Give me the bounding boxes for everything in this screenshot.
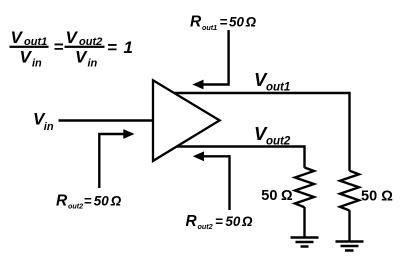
label 50 ohm right	[361, 189, 393, 205]
gain equation Vout1/Vin = Vout2/Vin = 1	[10, 28, 133, 69]
svg-text:out1: out1	[202, 23, 217, 32]
svg-text:V: V	[20, 48, 33, 67]
label Rout2 = 50 ohm (input side)	[56, 192, 122, 210]
svg-text:=: =	[107, 38, 117, 57]
svg-text:=: =	[215, 214, 223, 229]
svg-text:=: =	[54, 37, 64, 56]
svg-text:50: 50	[361, 189, 377, 205]
svg-text:Ω: Ω	[281, 188, 293, 204]
svg-text:50: 50	[229, 15, 244, 30]
label 50 ohm left	[261, 188, 293, 204]
label Rout1 = 50 ohm	[190, 14, 257, 32]
resistor RL2 50 ohm (on Vout2)	[295, 168, 314, 208]
annotation arrow Rout2 to Vout2 wire	[193, 151, 230, 210]
svg-text:out2: out2	[68, 201, 83, 210]
svg-text:V: V	[75, 48, 88, 67]
svg-text:1: 1	[124, 38, 133, 57]
wire Vout2 net	[177, 147, 305, 168]
label Vin	[33, 110, 54, 133]
svg-text:in: in	[32, 57, 42, 69]
buffer amplifier U1	[153, 80, 220, 161]
wire RL1 to ground	[348, 210, 350, 240]
resistor RL1 50 ohm (on Vout1)	[340, 171, 359, 211]
svg-text:Ω: Ω	[110, 193, 122, 208]
svg-text:50: 50	[225, 214, 240, 229]
svg-text:Ω: Ω	[245, 15, 257, 30]
label Rout2 = 50 ohm (output side)	[186, 213, 254, 231]
svg-text:in: in	[44, 121, 54, 133]
svg-text:in: in	[88, 57, 98, 69]
wire Vin input	[59, 119, 154, 121]
svg-text:=: =	[84, 193, 92, 208]
svg-text:R: R	[186, 213, 198, 230]
svg-text:Ω: Ω	[241, 214, 253, 229]
wire RL2 to ground	[303, 207, 305, 237]
annotation arrow Rout2 to amplifier input	[99, 129, 134, 188]
svg-text:50: 50	[94, 193, 109, 208]
svg-text:=: =	[220, 15, 228, 30]
wire Vout1 net	[174, 93, 350, 171]
svg-text:V: V	[66, 28, 79, 47]
svg-text:50: 50	[261, 188, 277, 204]
svg-text:out2: out2	[198, 222, 213, 231]
svg-text:R: R	[56, 192, 68, 209]
svg-text:R: R	[190, 14, 202, 31]
label Vout1	[254, 69, 290, 93]
ground right	[336, 242, 364, 251]
label Vout2	[254, 123, 291, 148]
svg-text:Ω: Ω	[381, 189, 393, 205]
svg-text:V: V	[11, 28, 24, 47]
ground left	[291, 238, 319, 247]
annotation arrow Rout1 to Vout1 wire	[192, 30, 228, 89]
svg-text:out1: out1	[266, 81, 290, 93]
